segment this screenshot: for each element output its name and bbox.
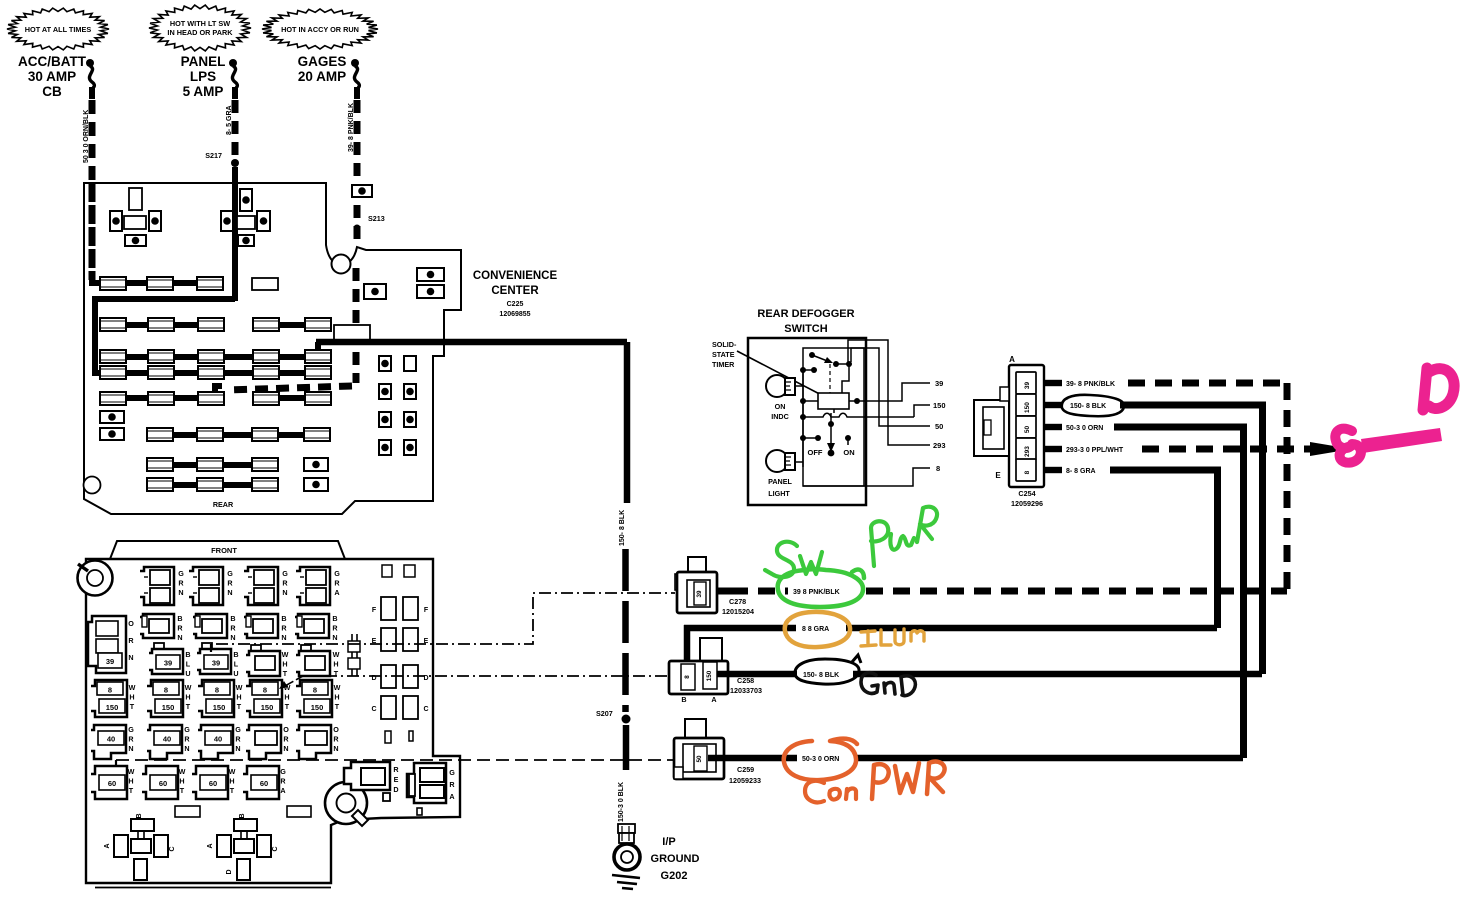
wire 150-8 BLK horizontal to C258: [717, 671, 1262, 678]
svg-text:B: B: [233, 650, 238, 659]
connector row5-5 row5: [296, 725, 331, 759]
svg-text:150: 150: [106, 703, 119, 712]
svg-text:R: R: [178, 579, 184, 588]
svg-text:B: B: [230, 614, 235, 623]
svg-text:60: 60: [159, 779, 167, 788]
svg-text:39: 39: [1024, 382, 1031, 390]
wire 39-8 PNK/BLK dashed run: [1128, 380, 1287, 387]
svg-text:20 AMP: 20 AMP: [298, 69, 346, 84]
connector row1-4 row1: [296, 567, 330, 605]
svg-text:T: T: [129, 786, 134, 795]
svg-text:C278: C278: [729, 597, 746, 606]
wire 50-3 ORN horizontal to C259: [708, 755, 1243, 762]
svg-text:D: D: [226, 869, 233, 874]
svg-text:CONVENIENCE: CONVENIENCE: [473, 270, 558, 282]
hand-drawn loop around 150-8 BLK: [1061, 395, 1124, 416]
svg-text:N: N: [230, 633, 235, 642]
svg-text:B: B: [136, 813, 143, 818]
svg-text:C: C: [169, 846, 176, 851]
svg-text:HOT WITH LT SW: HOT WITH LT SW: [170, 19, 230, 28]
connector row2-1 row2: [140, 614, 174, 638]
svg-text:R: R: [177, 624, 183, 633]
svg-text:S217: S217: [205, 151, 222, 160]
svg-text:W: W: [179, 767, 186, 776]
svg-text:F: F: [372, 607, 377, 614]
svg-text:E: E: [995, 471, 1001, 480]
svg-text:C: C: [272, 846, 279, 851]
svg-text:B: B: [185, 650, 190, 659]
connector C254 body: [1009, 365, 1044, 487]
fuse row 1: [100, 277, 126, 290]
hand-drawn loop around 150-8 BLK (GND): [795, 659, 859, 684]
connector row4-1 8/150: [91, 680, 127, 717]
svg-text:293: 293: [933, 441, 946, 450]
terminal dot rects left: [100, 411, 124, 423]
wire PANEL elbow: [95, 299, 235, 374]
svg-text:SOLID-: SOLID-: [712, 340, 737, 349]
switch output line 8: [803, 468, 930, 486]
svg-text:A: A: [449, 792, 454, 801]
svg-text:150: 150: [706, 670, 713, 681]
svg-text:O: O: [283, 725, 289, 734]
switch output line 293: [848, 340, 930, 445]
wire 8-8 GRA run: [1110, 467, 1221, 474]
wire row7 bus: [147, 462, 275, 468]
circuit breaker symbol at x=92: [86, 59, 94, 67]
svg-text:60: 60: [260, 779, 268, 788]
fuse row 7: [147, 458, 173, 471]
svg-text:G: G: [235, 725, 241, 734]
connector GRA: [407, 763, 446, 803]
svg-text:H: H: [284, 693, 289, 702]
wire PANEL into fuse block: [232, 167, 238, 301]
svg-text:H: H: [333, 660, 338, 669]
svg-text:B: B: [681, 695, 686, 704]
wire 150-8 BLK run: [1120, 402, 1266, 409]
svg-text:PANEL: PANEL: [768, 477, 792, 486]
svg-text:C254: C254: [1018, 489, 1035, 498]
svg-text:N: N: [283, 744, 288, 753]
svg-text:T: T: [335, 702, 340, 711]
svg-text:R: R: [128, 735, 134, 744]
connector row5-3 row5: [198, 725, 233, 759]
svg-text:GROUND: GROUND: [651, 853, 700, 865]
wire 150-3 BLK to ground: [623, 725, 630, 770]
svg-text:H: H: [334, 693, 339, 702]
svg-text:R: R: [332, 624, 338, 633]
svg-text:H: H: [236, 693, 241, 702]
svg-text:R: R: [230, 624, 236, 633]
svg-text:H: H: [229, 777, 234, 786]
circuit breaker symbol at x=357: [351, 59, 359, 67]
connector row2-2 row2: [193, 614, 227, 638]
svg-text:30 AMP: 30 AMP: [28, 69, 76, 84]
annotation green oval SW PWR wire: [778, 569, 863, 607]
wire 39-8 PNK/BLK horizontal to C278: [731, 588, 1287, 595]
bulb ON INDC: [766, 375, 788, 397]
svg-text:8: 8: [108, 686, 112, 695]
svg-text:A: A: [280, 786, 285, 795]
svg-text:N: N: [184, 744, 189, 753]
svg-text:N: N: [333, 744, 338, 753]
svg-text:40: 40: [107, 735, 115, 744]
svg-text:A: A: [334, 588, 339, 597]
svg-text:G: G: [184, 725, 190, 734]
svg-text:T: T: [237, 702, 242, 711]
svg-text:T: T: [285, 702, 290, 711]
svg-text:60: 60: [108, 779, 116, 788]
svg-text:39: 39: [212, 659, 220, 668]
FRONT band: [110, 541, 345, 559]
svg-text:W: W: [128, 767, 135, 776]
svg-text:50: 50: [1024, 426, 1031, 434]
rear defogger switch box: [748, 338, 866, 505]
svg-text:T: T: [283, 669, 288, 678]
svg-text:W: W: [282, 650, 289, 659]
svg-text:W: W: [229, 767, 236, 776]
svg-text:R: R: [280, 777, 286, 786]
ground symbol G202: [612, 875, 640, 878]
svg-text:12069855: 12069855: [499, 311, 530, 318]
svg-text:IN HEAD OR PARK: IN HEAD OR PARK: [167, 28, 233, 37]
svg-text:L: L: [186, 660, 191, 669]
connector C259: [685, 719, 706, 740]
annotation orange text Con: [805, 781, 824, 803]
svg-text:G: G: [128, 725, 134, 734]
svg-text:A: A: [104, 843, 111, 848]
svg-text:REAR DEFOGGER: REAR DEFOGGER: [757, 308, 854, 320]
svg-text:150: 150: [311, 703, 324, 712]
svg-text:50: 50: [696, 755, 703, 763]
svg-text:8: 8: [313, 686, 317, 695]
svg-text:G: G: [280, 767, 286, 776]
svg-text:G: G: [227, 569, 233, 578]
svg-text:39: 39: [935, 379, 943, 388]
terminal dot rects right: [304, 458, 328, 471]
connector RED: [344, 762, 390, 790]
svg-text:G: G: [282, 569, 288, 578]
svg-text:C259: C259: [737, 765, 754, 774]
convenience center connector grid: [417, 268, 444, 281]
connector ORN 39: [88, 616, 126, 673]
svg-text:W: W: [236, 683, 243, 692]
svg-text:R: R: [282, 579, 288, 588]
svg-text:50 3 0 ORN/BLK: 50 3 0 ORN/BLK: [83, 110, 90, 163]
svg-text:GAGES: GAGES: [298, 54, 347, 69]
connector C278: [688, 557, 706, 572]
svg-text:C: C: [371, 706, 376, 713]
svg-text:8: 8: [1024, 470, 1031, 474]
svg-text:R: R: [334, 579, 340, 588]
knob lower-left of rear block: [84, 477, 101, 494]
knob bottom-right: [325, 782, 367, 824]
callout HOT WITH LT SW IN HEAD OR PARK: [149, 5, 251, 51]
svg-text:T: T: [180, 786, 185, 795]
svg-text:CENTER: CENTER: [491, 285, 539, 297]
wire row6 bus: [147, 432, 328, 438]
svg-text:H: H: [128, 777, 133, 786]
wire 8-5 GRA from PANEL fuse: [232, 100, 239, 156]
connector C258: [700, 638, 722, 662]
connector grid F E D C: [381, 597, 396, 620]
svg-text:SWITCH: SWITCH: [784, 323, 827, 335]
circuit breaker symbol at x=235: [229, 59, 237, 67]
svg-text:FRONT: FRONT: [211, 546, 237, 555]
svg-text:ACC/BATT: ACC/BATT: [18, 54, 87, 69]
wire 50-3 ORN run: [1114, 424, 1247, 431]
connector row3-2 row3: [202, 643, 212, 651]
annotation amber text ILU m: [861, 631, 876, 646]
fuse row 3: [100, 350, 126, 363]
svg-text:T: T: [130, 702, 135, 711]
switch output line 150: [914, 405, 930, 417]
svg-text:R: R: [333, 735, 339, 744]
svg-text:H: H: [282, 660, 287, 669]
svg-text:D: D: [393, 785, 398, 794]
dash-dot line from block E row to C278: [216, 593, 675, 644]
svg-text:REAR: REAR: [213, 500, 234, 509]
connector row5-1 row5: [91, 725, 126, 759]
wire notch circle (gages wire pass-through): [332, 255, 351, 274]
svg-text:R: R: [281, 624, 287, 633]
svg-text:W: W: [185, 683, 192, 692]
svg-text:T: T: [230, 786, 235, 795]
annotation pink stroke to D: [1361, 428, 1442, 453]
svg-text:293: 293: [1024, 446, 1031, 457]
ring terminal I/P ground: [618, 824, 635, 833]
svg-text:12033703: 12033703: [730, 686, 762, 695]
connector row4-2 8/150: [147, 680, 183, 717]
connector row5-2 row5: [147, 725, 182, 759]
svg-text:H: H: [185, 693, 190, 702]
svg-text:150-3 0 BLK: 150-3 0 BLK: [618, 782, 625, 822]
annotation amber oval ILUM wire: [785, 612, 850, 647]
svg-text:LPS: LPS: [190, 69, 216, 84]
svg-text:E: E: [394, 775, 399, 784]
svg-text:B: B: [281, 614, 286, 623]
relay cluster 2: [240, 189, 252, 211]
svg-text:ON: ON: [843, 448, 854, 457]
plain rect upper: [334, 325, 370, 341]
svg-text:T: T: [186, 702, 191, 711]
svg-text:5 AMP: 5 AMP: [183, 84, 224, 99]
connector row3-1 row3: [154, 643, 164, 651]
svg-text:8: 8: [684, 675, 691, 679]
annotation orange text PWR: [872, 764, 889, 799]
dot rect near S213: [352, 185, 372, 197]
wire 50 ORN/BLK from ACC/BATT fuse: [89, 100, 96, 280]
svg-text:150- 8 BLK: 150- 8 BLK: [803, 672, 839, 679]
svg-text:B: B: [332, 614, 337, 623]
arrow to solid state timer: [737, 351, 833, 401]
svg-text:40: 40: [163, 735, 171, 744]
svg-text:N: N: [332, 633, 337, 642]
wire 150-8 BLK main run from fuse block: [316, 339, 627, 346]
svg-text:O: O: [128, 619, 134, 628]
callout HOT AT ALL TIMES: [7, 8, 109, 50]
svg-text:8: 8: [215, 686, 219, 695]
svg-text:39: 39: [164, 659, 172, 668]
fuse row 4: [100, 366, 126, 379]
svg-text:C: C: [423, 706, 428, 713]
svg-text:N: N: [128, 653, 133, 662]
svg-text:G: G: [178, 569, 184, 578]
dash-dot line to C259: [116, 759, 674, 761]
svg-text:S213: S213: [368, 214, 385, 223]
fuse block rear view outline: [84, 183, 461, 514]
svg-text:N: N: [128, 744, 133, 753]
switch output line 50: [851, 348, 930, 426]
connector row2-3 row2: [244, 614, 278, 638]
svg-text:12015204: 12015204: [722, 607, 754, 616]
wire 293-3 PPL/WHT dashed run: [1142, 446, 1318, 453]
svg-text:R: R: [235, 735, 241, 744]
svg-text:R: R: [393, 765, 399, 774]
svg-text:S207: S207: [596, 709, 613, 718]
svg-text:R: R: [227, 579, 233, 588]
svg-text:B: B: [177, 614, 182, 623]
svg-text:A: A: [1009, 355, 1015, 364]
svg-text:H: H: [129, 693, 134, 702]
fuse block front view outline: [86, 559, 460, 883]
relay cluster 1: [129, 188, 142, 210]
svg-text:50: 50: [935, 422, 943, 431]
svg-text:8: 8: [164, 686, 168, 695]
fuse row 6: [147, 428, 173, 441]
svg-text:O: O: [333, 725, 339, 734]
svg-text:C258: C258: [737, 676, 754, 685]
connector row2-4 row2: [295, 614, 329, 638]
fuse row 2: [100, 318, 126, 331]
svg-text:N: N: [227, 588, 232, 597]
svg-text:U: U: [185, 669, 190, 678]
svg-text:G: G: [449, 768, 455, 777]
svg-text:H: H: [179, 777, 184, 786]
connector row6-1 row6: [91, 766, 127, 799]
svg-text:U: U: [233, 669, 238, 678]
svg-text:40: 40: [214, 735, 222, 744]
knob top-left: [78, 561, 113, 596]
wire 8-8 GRA horizontal: [684, 625, 1217, 632]
wire GAGES dashed inside block: [353, 268, 360, 383]
svg-text:R: R: [128, 636, 134, 645]
svg-text:150: 150: [1024, 402, 1031, 413]
solid state timer box: [818, 393, 849, 409]
svg-text:ON: ON: [775, 402, 786, 411]
annotation black text GnD: [861, 673, 878, 694]
svg-text:TIMER: TIMER: [712, 360, 735, 369]
connector row5-4 row5: [246, 725, 281, 759]
svg-text:C225: C225: [507, 301, 524, 308]
svg-text:8: 8: [936, 464, 940, 473]
svg-text:N: N: [235, 744, 240, 753]
svg-text:PANEL: PANEL: [181, 54, 226, 69]
small rail connector: [351, 634, 353, 676]
connector row4-5 8/150: [296, 680, 332, 717]
connector row1-3 row1: [244, 567, 278, 605]
dash-dot line from block D row to C258: [303, 675, 669, 677]
connector row6-3 row6: [192, 766, 228, 799]
svg-text:8: 8: [263, 686, 267, 695]
connector row1-1 row1: [140, 567, 174, 605]
svg-text:A: A: [711, 695, 716, 704]
pin 50 C254: [1016, 416, 1036, 438]
connector row4-3 8/150: [198, 680, 234, 717]
svg-text:N: N: [177, 633, 182, 642]
wire ACC feed inside block (dashed): [89, 183, 96, 280]
switch contacts and wiring: [795, 385, 803, 387]
svg-text:12059233: 12059233: [729, 776, 761, 785]
svg-text:39- 8 PNK/BLK: 39- 8 PNK/BLK: [348, 103, 355, 152]
wire row5 bus: [100, 395, 219, 401]
svg-text:150: 150: [162, 703, 175, 712]
annotation orange oval CON PWR wire: [784, 739, 857, 780]
svg-text:50-3 0 ORN: 50-3 0 ORN: [802, 756, 839, 763]
svg-text:150- 8 BLK: 150- 8 BLK: [1070, 403, 1106, 410]
annotation green text Sw: [765, 542, 797, 577]
svg-text:W: W: [334, 683, 341, 692]
bulb PANEL LIGHT: [766, 450, 788, 472]
connector row4-4 8/150: [246, 680, 282, 717]
svg-text:F: F: [424, 607, 429, 614]
svg-text:LIGHT: LIGHT: [768, 489, 790, 498]
svg-text:L: L: [234, 660, 239, 669]
svg-text:R: R: [283, 735, 289, 744]
callout HOT IN ACCY OR RUN: [262, 9, 378, 49]
svg-text:8- 5 GRA: 8- 5 GRA: [226, 105, 233, 135]
box bottom double edge: [95, 887, 331, 889]
svg-text:A: A: [207, 843, 214, 848]
svg-text:B: B: [239, 813, 246, 818]
svg-text:39 8 PNK/BLK: 39 8 PNK/BLK: [793, 589, 840, 596]
connector row3-4 row3: [301, 645, 311, 653]
svg-text:12059296: 12059296: [1011, 499, 1043, 508]
annotation green text PwR: [871, 521, 888, 566]
pin 150 C254: [1016, 394, 1036, 416]
svg-text:N: N: [281, 633, 286, 642]
connector row6-4 row6: [243, 766, 279, 799]
svg-text:R: R: [184, 735, 190, 744]
svg-text:OFF: OFF: [808, 448, 823, 457]
svg-text:INDC: INDC: [771, 412, 789, 421]
wire 39-8 PNK/BLK from GAGES fuse: [354, 100, 361, 244]
svg-text:39: 39: [696, 590, 703, 598]
pin 8 C254: [1016, 459, 1036, 481]
svg-text:W: W: [333, 650, 340, 659]
svg-text:39- 8 PNK/BLK: 39- 8 PNK/BLK: [1066, 381, 1115, 388]
svg-text:HOT AT ALL TIMES: HOT AT ALL TIMES: [25, 25, 92, 34]
svg-text:8- 8 GRA: 8- 8 GRA: [1066, 468, 1096, 475]
wire row3 bus + elbow to main 150 wire: [100, 354, 319, 360]
switch output line 39: [857, 383, 930, 401]
fuse row 5: [100, 392, 126, 405]
svg-text:STATE: STATE: [712, 350, 735, 359]
svg-text:50-3 0 ORN: 50-3 0 ORN: [1066, 425, 1103, 432]
pin 293 C254: [1016, 438, 1036, 460]
svg-text:G202: G202: [661, 870, 688, 882]
svg-text:293-3 0 PPL/WHT: 293-3 0 PPL/WHT: [1066, 447, 1124, 454]
svg-text:8 8 GRA: 8 8 GRA: [802, 626, 829, 633]
fuse row 8: [147, 478, 173, 491]
svg-text:HOT IN ACCY OR RUN: HOT IN ACCY OR RUN: [281, 25, 359, 34]
wire row4 bus: [92, 370, 329, 376]
svg-text:N: N: [282, 588, 287, 597]
svg-text:60: 60: [209, 779, 217, 788]
connector row6-2 row6: [142, 766, 178, 799]
wire row2 bus: [99, 322, 224, 328]
connector row3-3 row3: [251, 645, 261, 653]
svg-text:I/P: I/P: [662, 836, 675, 848]
